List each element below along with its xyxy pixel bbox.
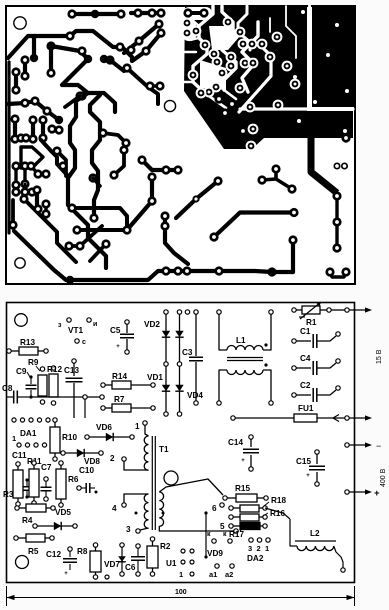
pad bbox=[160, 211, 169, 220]
wire bbox=[27, 372, 30, 377]
resistor R4 body bbox=[26, 504, 46, 512]
pad bbox=[288, 235, 297, 244]
pin pad bbox=[32, 461, 36, 465]
capacitor plates bbox=[313, 334, 317, 348]
pad bbox=[265, 52, 276, 63]
resistor R5 body bbox=[26, 534, 45, 542]
wire bbox=[11, 200, 15, 225]
pin pad bbox=[16, 502, 20, 506]
pin pad bbox=[269, 401, 273, 405]
wire bbox=[62, 59, 115, 112]
wire bbox=[8, 101, 59, 120]
wire bbox=[152, 568, 154, 572]
pad hole bbox=[343, 129, 347, 133]
pin pad bbox=[150, 537, 154, 541]
wire bbox=[137, 561, 139, 572]
pad bbox=[134, 36, 143, 45]
wire bbox=[240, 528, 243, 531]
pin pad bbox=[61, 451, 65, 455]
resistor R17 body bbox=[240, 523, 260, 530]
transformer T1 bbox=[152, 436, 155, 530]
pad bbox=[245, 102, 256, 113]
mounting hole bbox=[15, 314, 28, 327]
pin pad bbox=[263, 506, 267, 510]
pad bbox=[84, 55, 92, 63]
pad bbox=[11, 180, 20, 189]
pad bbox=[38, 115, 47, 124]
wire bbox=[33, 465, 35, 469]
pad bbox=[20, 98, 29, 107]
pad bbox=[160, 221, 169, 230]
svg-text:R12: R12 bbox=[47, 365, 62, 374]
pad bbox=[213, 176, 222, 185]
wire bbox=[14, 166, 17, 185]
resistor R18 body bbox=[240, 505, 259, 512]
isolation channel bbox=[286, 6, 296, 58]
wire bbox=[31, 120, 35, 139]
diode symbol bbox=[54, 522, 61, 530]
pad bbox=[182, 266, 191, 275]
capacitor plates bbox=[66, 378, 83, 382]
wire bbox=[72, 208, 127, 227]
pad bbox=[332, 191, 341, 200]
svg-text:R9: R9 bbox=[28, 358, 39, 367]
resistor R8 body bbox=[90, 551, 101, 572]
wire bbox=[121, 547, 123, 572]
pin pad bbox=[125, 350, 129, 354]
pin pad bbox=[345, 443, 349, 447]
resistor R14 body bbox=[112, 381, 131, 389]
pin pad bbox=[190, 572, 194, 576]
isolation channel bbox=[190, 18, 199, 26]
pin pad bbox=[231, 416, 235, 420]
svg-text:1: 1 bbox=[179, 570, 183, 579]
wire bbox=[69, 226, 102, 246]
R1 arrow bbox=[300, 302, 321, 319]
mounting hole bbox=[14, 17, 26, 29]
wire bbox=[165, 314, 167, 362]
wire bbox=[290, 519, 297, 546]
wire bbox=[165, 216, 188, 264]
pin pad bbox=[249, 467, 253, 471]
wire bbox=[235, 417, 294, 419]
pad bbox=[47, 124, 56, 133]
svg-text:+: + bbox=[306, 473, 310, 479]
pad bbox=[21, 133, 30, 142]
wire bbox=[13, 119, 17, 139]
resistor R9 body bbox=[38, 375, 47, 396]
capacitor plates bbox=[23, 487, 31, 491]
pad bbox=[161, 165, 170, 174]
pad bbox=[248, 124, 259, 135]
pin pad bbox=[83, 395, 87, 399]
pin pad bbox=[336, 386, 340, 390]
wire bbox=[23, 166, 26, 184]
wire bbox=[52, 129, 59, 130]
diode symbol bbox=[175, 331, 183, 337]
pad bbox=[101, 239, 110, 248]
wire bbox=[124, 461, 149, 470]
pin pad bbox=[17, 443, 21, 447]
wire bbox=[23, 60, 27, 76]
wire bbox=[124, 494, 149, 503]
wire bbox=[33, 497, 35, 501]
svg-text:a2: a2 bbox=[225, 570, 233, 579]
wire bbox=[126, 324, 128, 333]
pad bbox=[226, 61, 237, 72]
wire bbox=[54, 422, 56, 427]
wire bbox=[17, 498, 19, 502]
wire bbox=[331, 309, 345, 311]
wire bbox=[214, 213, 294, 238]
capacitor plates bbox=[63, 559, 77, 563]
wire bbox=[264, 502, 269, 506]
pad bbox=[38, 133, 47, 142]
pin pad bbox=[51, 366, 55, 370]
pad bbox=[332, 243, 341, 252]
pad bbox=[238, 39, 249, 50]
wire bbox=[233, 507, 240, 509]
pin pad bbox=[229, 515, 233, 519]
wire bbox=[114, 150, 124, 175]
wire bbox=[81, 487, 86, 489]
wire bbox=[317, 417, 345, 419]
pad bbox=[332, 217, 341, 226]
pin pad bbox=[105, 575, 109, 579]
pad bbox=[41, 199, 50, 208]
pin pad bbox=[234, 529, 238, 533]
svg-text:C6: C6 bbox=[125, 563, 136, 572]
wire bbox=[110, 60, 124, 71]
svg-text:и: и bbox=[93, 321, 97, 328]
pin pad bbox=[95, 491, 98, 494]
svg-text:VD6: VD6 bbox=[96, 423, 112, 432]
capacitor plates bbox=[86, 483, 90, 493]
pin pad bbox=[14, 536, 18, 540]
pin pad bbox=[101, 383, 105, 387]
wire bbox=[60, 499, 62, 503]
svg-text:C14: C14 bbox=[228, 438, 243, 447]
svg-text:R17: R17 bbox=[229, 530, 244, 539]
wire bbox=[150, 84, 160, 88]
pin pad bbox=[249, 538, 253, 542]
wire bbox=[65, 452, 99, 454]
pad bbox=[26, 161, 35, 170]
svg-text:5: 5 bbox=[220, 522, 225, 531]
wire bbox=[265, 508, 290, 519]
wire bbox=[7, 62, 10, 233]
pin pad bbox=[336, 359, 340, 363]
fuse FU1 body bbox=[294, 414, 317, 422]
pad bbox=[46, 41, 55, 50]
copper pour bbox=[212, 6, 307, 22]
pad bbox=[192, 195, 199, 202]
pin pad bbox=[44, 477, 48, 481]
wire bbox=[73, 363, 75, 376]
pad bbox=[20, 179, 29, 188]
diode symbol bbox=[77, 449, 84, 457]
svg-text:C9: C9 bbox=[16, 367, 27, 376]
wire bbox=[219, 370, 227, 401]
pad hole bbox=[293, 75, 297, 79]
pin pad bbox=[264, 343, 267, 346]
isolation channel bbox=[269, 18, 271, 32]
pad bbox=[235, 27, 246, 38]
pin pad bbox=[122, 457, 126, 461]
pad bbox=[282, 61, 293, 72]
wire bbox=[69, 564, 71, 570]
pin pad bbox=[136, 529, 140, 533]
diode symbol bbox=[162, 385, 170, 391]
pad bbox=[271, 164, 280, 173]
svg-text:R3: R3 bbox=[3, 490, 14, 499]
pin pad bbox=[269, 310, 273, 314]
wire bbox=[317, 363, 336, 368]
pad bbox=[188, 70, 199, 81]
wire bbox=[45, 537, 50, 539]
pin pad bbox=[194, 310, 198, 314]
pad bbox=[119, 145, 128, 154]
resistor R2 body bbox=[147, 546, 158, 568]
wire bbox=[30, 390, 32, 396]
wire bbox=[140, 528, 149, 530]
pad bbox=[41, 169, 50, 178]
arrow bbox=[349, 491, 367, 493]
pad bbox=[196, 88, 207, 99]
pad bbox=[247, 39, 258, 50]
capacitor plates bbox=[309, 466, 325, 470]
pad bbox=[77, 91, 86, 100]
isolation channel bbox=[184, 51, 196, 53]
pin pad bbox=[164, 412, 168, 416]
wire bbox=[73, 383, 75, 418]
wire bbox=[179, 366, 181, 412]
pin pad bbox=[68, 547, 72, 551]
svg-text:R8: R8 bbox=[77, 547, 88, 556]
pad hole bbox=[326, 53, 330, 57]
pad bbox=[341, 133, 350, 142]
wire bbox=[25, 184, 32, 192]
pad bbox=[182, 18, 193, 29]
pin pad bbox=[223, 496, 227, 500]
svg-text:U1: U1 bbox=[166, 559, 177, 568]
pin pad bbox=[177, 362, 181, 366]
pin pad bbox=[44, 497, 48, 501]
pin pad bbox=[44, 349, 48, 353]
svg-text:2: 2 bbox=[257, 544, 261, 553]
pad bbox=[156, 8, 165, 17]
pad bbox=[133, 8, 142, 17]
isolation pocket bbox=[183, 19, 196, 41]
pad bbox=[10, 114, 19, 123]
pin pad bbox=[190, 549, 194, 553]
pin pad bbox=[315, 450, 319, 454]
svg-text:C10: C10 bbox=[79, 466, 94, 475]
wire bbox=[90, 246, 104, 261]
wire bbox=[45, 481, 47, 487]
pad bbox=[28, 134, 37, 143]
pin pad bbox=[93, 575, 97, 579]
wire bbox=[205, 514, 207, 556]
pad bbox=[122, 63, 131, 72]
svg-text:C3: C3 bbox=[182, 348, 193, 357]
wire bbox=[335, 196, 338, 248]
pin pad bbox=[85, 435, 89, 439]
wire bbox=[90, 487, 95, 489]
wire bbox=[296, 394, 311, 396]
wire bbox=[93, 178, 100, 186]
pad bbox=[220, 108, 229, 117]
resistor R13 body bbox=[19, 347, 38, 355]
pin pad bbox=[164, 310, 168, 314]
wire bbox=[57, 151, 66, 176]
resistor R15 body bbox=[236, 494, 257, 502]
wire bbox=[316, 472, 318, 482]
resistor R3 body bbox=[13, 470, 23, 498]
wire bbox=[250, 455, 252, 467]
wire bbox=[179, 314, 181, 362]
pin pad bbox=[177, 310, 181, 314]
pin pad bbox=[51, 401, 55, 405]
pad bbox=[145, 81, 154, 90]
wire bbox=[263, 314, 271, 350]
pad bbox=[191, 26, 202, 37]
isolation channel bbox=[190, 38, 199, 40]
wire bbox=[233, 516, 240, 518]
wire bbox=[31, 166, 46, 174]
svg-text:C11: C11 bbox=[12, 451, 27, 460]
pin pad bbox=[130, 435, 134, 439]
pin pad bbox=[263, 515, 267, 519]
wire bbox=[317, 336, 336, 341]
wire bbox=[165, 366, 167, 412]
pin pad bbox=[264, 363, 267, 366]
pad bbox=[147, 172, 156, 181]
pad bbox=[155, 81, 164, 90]
pin pad bbox=[46, 418, 50, 422]
pin pad bbox=[204, 511, 207, 514]
svg-text:C5: C5 bbox=[110, 326, 121, 335]
pin pad bbox=[345, 490, 349, 494]
pin pad bbox=[257, 538, 261, 542]
svg-text:100: 100 bbox=[175, 589, 187, 596]
wire bbox=[89, 436, 130, 438]
pin pad bbox=[101, 406, 105, 410]
pin pad bbox=[215, 564, 219, 568]
diode symbol bbox=[106, 433, 113, 441]
pad bbox=[105, 55, 114, 64]
svg-text:4: 4 bbox=[112, 504, 117, 513]
pad bbox=[91, 10, 99, 18]
pad bbox=[100, 55, 108, 63]
pad bbox=[27, 187, 36, 196]
pad bbox=[55, 116, 63, 124]
pad bbox=[240, 58, 251, 69]
pin pad bbox=[229, 524, 233, 528]
wire bbox=[26, 481, 28, 486]
pin pad bbox=[40, 367, 44, 371]
wire bbox=[296, 367, 311, 369]
pin pad bbox=[204, 555, 207, 558]
isolation pocket bbox=[200, 60, 226, 90]
pad bbox=[173, 266, 182, 275]
svg-text:к: к bbox=[223, 531, 227, 538]
wire bbox=[320, 309, 327, 311]
pad bbox=[16, 133, 25, 142]
pad bbox=[226, 52, 237, 63]
wire bbox=[24, 199, 76, 262]
svg-text:C13: C13 bbox=[64, 366, 79, 375]
svg-text:R6: R6 bbox=[68, 475, 79, 484]
svg-text:1: 1 bbox=[12, 434, 16, 443]
pin pad bbox=[20, 418, 24, 422]
svg-text:DA1: DA1 bbox=[20, 429, 37, 438]
resistor R6 body bbox=[56, 469, 66, 499]
wire bbox=[188, 11, 204, 15]
pin pad bbox=[12, 418, 16, 422]
pad bbox=[227, 99, 236, 108]
svg-text:R7: R7 bbox=[114, 395, 125, 404]
pin pad bbox=[264, 496, 268, 500]
pad bbox=[182, 28, 193, 39]
svg-text:+: + bbox=[64, 571, 68, 577]
wire bbox=[14, 231, 272, 280]
pad bbox=[147, 196, 156, 205]
pin pad bbox=[220, 503, 224, 507]
pad bbox=[267, 267, 276, 276]
pad bbox=[75, 241, 84, 250]
mounting hole bbox=[164, 100, 175, 111]
svg-text:+: + bbox=[241, 458, 245, 464]
svg-text:C7: C7 bbox=[41, 463, 52, 472]
pad bbox=[11, 161, 20, 170]
pin pad bbox=[143, 421, 147, 425]
wire bbox=[45, 491, 47, 497]
pad bbox=[235, 83, 246, 94]
mounting hole bbox=[15, 258, 25, 268]
wire bbox=[69, 551, 71, 557]
svg-text:3: 3 bbox=[126, 525, 131, 534]
pad bbox=[28, 115, 37, 124]
wire bbox=[26, 491, 28, 496]
pad hole bbox=[345, 89, 349, 93]
pad bbox=[67, 203, 76, 212]
svg-text:R10: R10 bbox=[62, 433, 77, 442]
wire bbox=[21, 147, 43, 168]
pad bbox=[287, 184, 296, 193]
wire bbox=[17, 466, 19, 470]
pad bbox=[257, 39, 268, 50]
svg-text:2: 2 bbox=[110, 454, 115, 463]
pad bbox=[77, 46, 86, 55]
svg-text:VD2: VD2 bbox=[144, 320, 160, 329]
pad bbox=[223, 17, 234, 28]
wire bbox=[103, 133, 126, 143]
pin pad bbox=[162, 512, 165, 515]
pad bbox=[19, 194, 28, 203]
pad bbox=[238, 126, 247, 135]
wire bbox=[137, 548, 139, 556]
pin pad bbox=[266, 538, 270, 542]
wire bbox=[145, 425, 149, 436]
pin pad bbox=[51, 506, 55, 510]
pin pad bbox=[59, 503, 63, 507]
svg-text:к: к bbox=[207, 531, 211, 538]
pin pad bbox=[292, 366, 296, 370]
wire bbox=[37, 525, 73, 527]
wire bbox=[274, 169, 278, 179]
diode symbol bbox=[118, 556, 126, 562]
